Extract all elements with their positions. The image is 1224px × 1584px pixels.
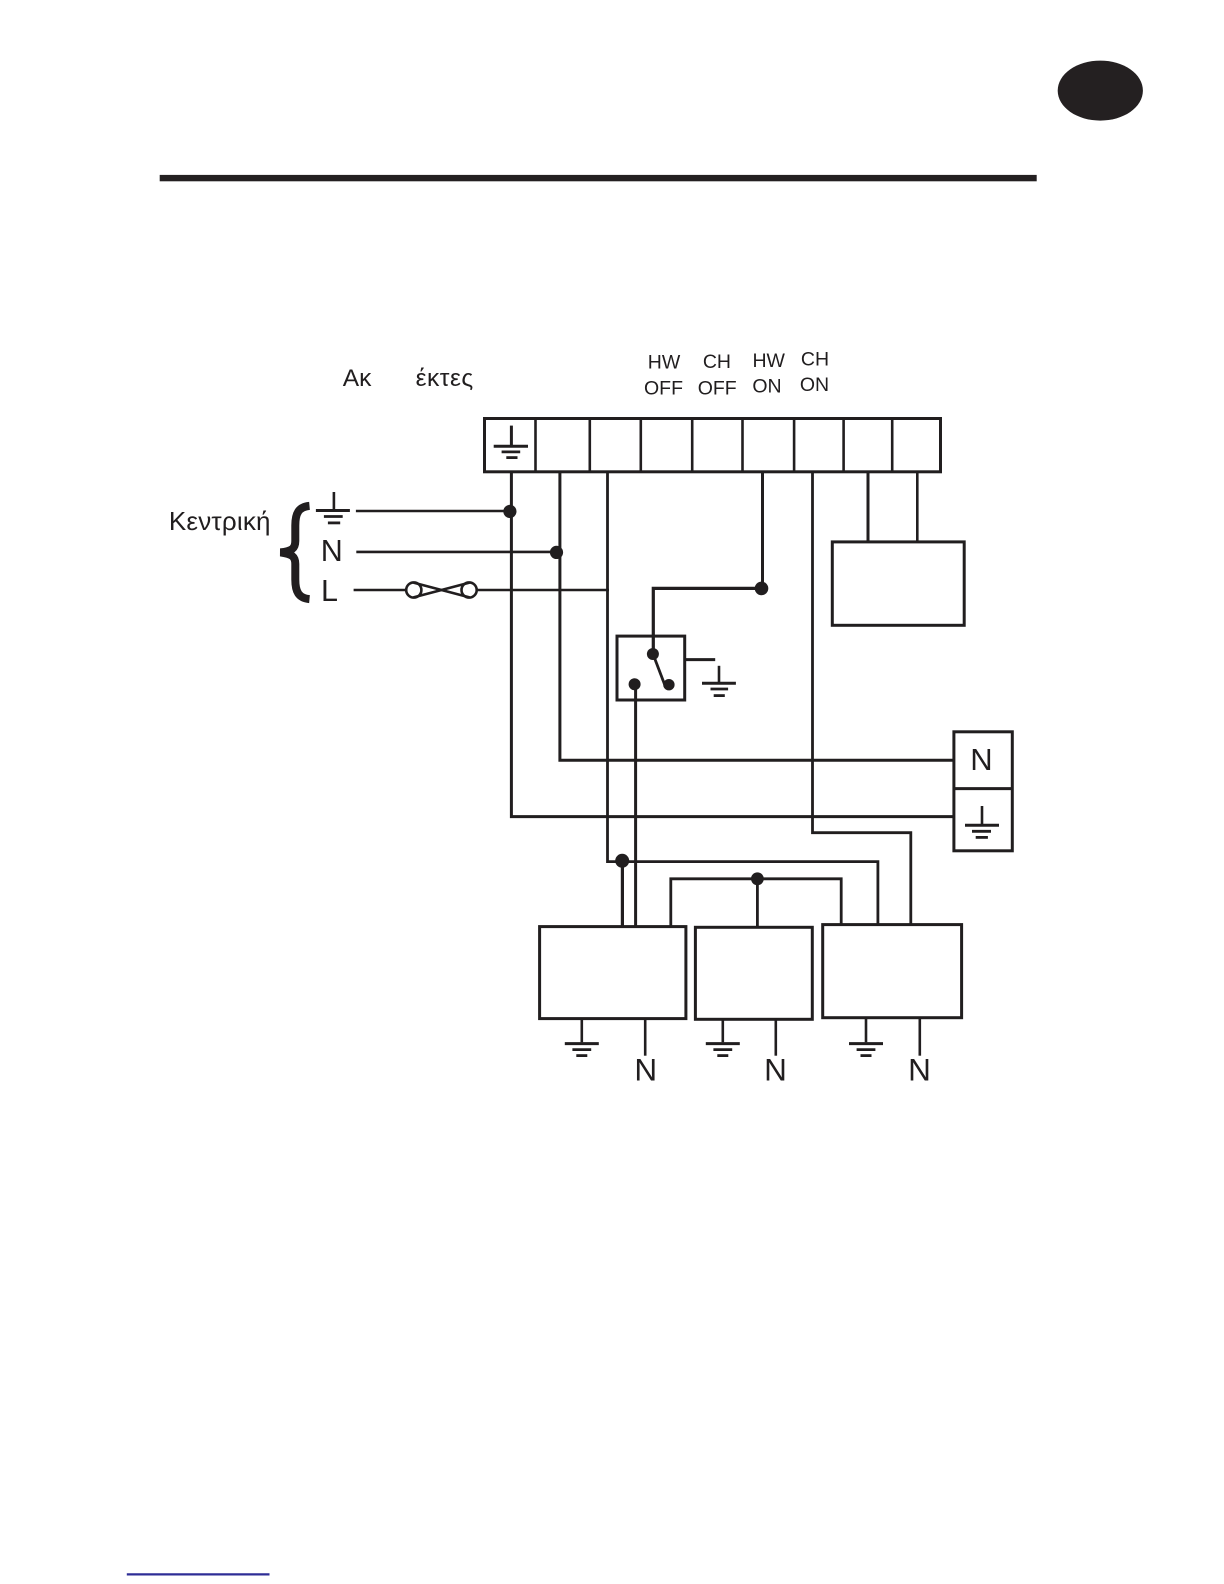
svg-text:N: N <box>970 742 992 777</box>
svg-text:N: N <box>764 1052 787 1088</box>
svg-text:έκτες: έκτες <box>416 365 474 392</box>
svg-text:N: N <box>634 1052 657 1088</box>
svg-text:Κεντρική: Κεντρική <box>169 506 271 536</box>
svg-text:CH: CH <box>801 349 829 371</box>
svg-text:Ακ: Ακ <box>343 365 372 392</box>
svg-text:N: N <box>908 1052 931 1088</box>
svg-text:HW: HW <box>752 350 785 372</box>
svg-text:L: L <box>321 574 338 608</box>
svg-text:HW: HW <box>648 352 681 374</box>
svg-text:ON: ON <box>752 376 781 398</box>
svg-text:ON: ON <box>800 374 829 396</box>
svg-text:N: N <box>321 534 343 568</box>
svg-text:OFF: OFF <box>644 378 683 400</box>
svg-text:OFF: OFF <box>698 378 737 400</box>
svg-text:CH: CH <box>703 351 731 373</box>
